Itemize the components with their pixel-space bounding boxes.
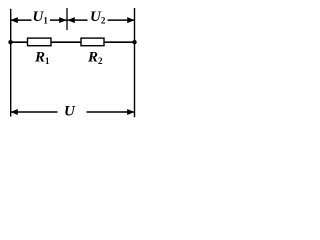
- voltage arrow U (right half): [87, 111, 135, 113]
- svg-text:U: U: [64, 104, 76, 120]
- junction dot right: [132, 40, 136, 44]
- resistor R1: [28, 38, 52, 46]
- svg-text:R1: R1: [34, 50, 50, 67]
- voltage arrow U2 (left half): [68, 19, 88, 21]
- voltage arrow U1 (right half): [50, 19, 67, 21]
- svg-text:U2: U2: [90, 9, 106, 26]
- wire: right vertical conductor: [134, 8, 136, 117]
- voltage arrow U1 (left half): [11, 19, 32, 21]
- svg-text:R2: R2: [87, 50, 103, 67]
- voltage arrow U2 (right half): [108, 19, 135, 21]
- wire: left vertical conductor: [10, 9, 12, 117]
- wire: main horizontal conductor through R1 and R2: [11, 41, 135, 43]
- voltage arrow U (left half): [11, 111, 58, 113]
- node tick between U1 and U2 dimensions: [66, 8, 68, 30]
- resistor R2: [81, 38, 104, 46]
- junction dot left: [8, 40, 12, 44]
- svg-text:U1: U1: [33, 9, 49, 26]
